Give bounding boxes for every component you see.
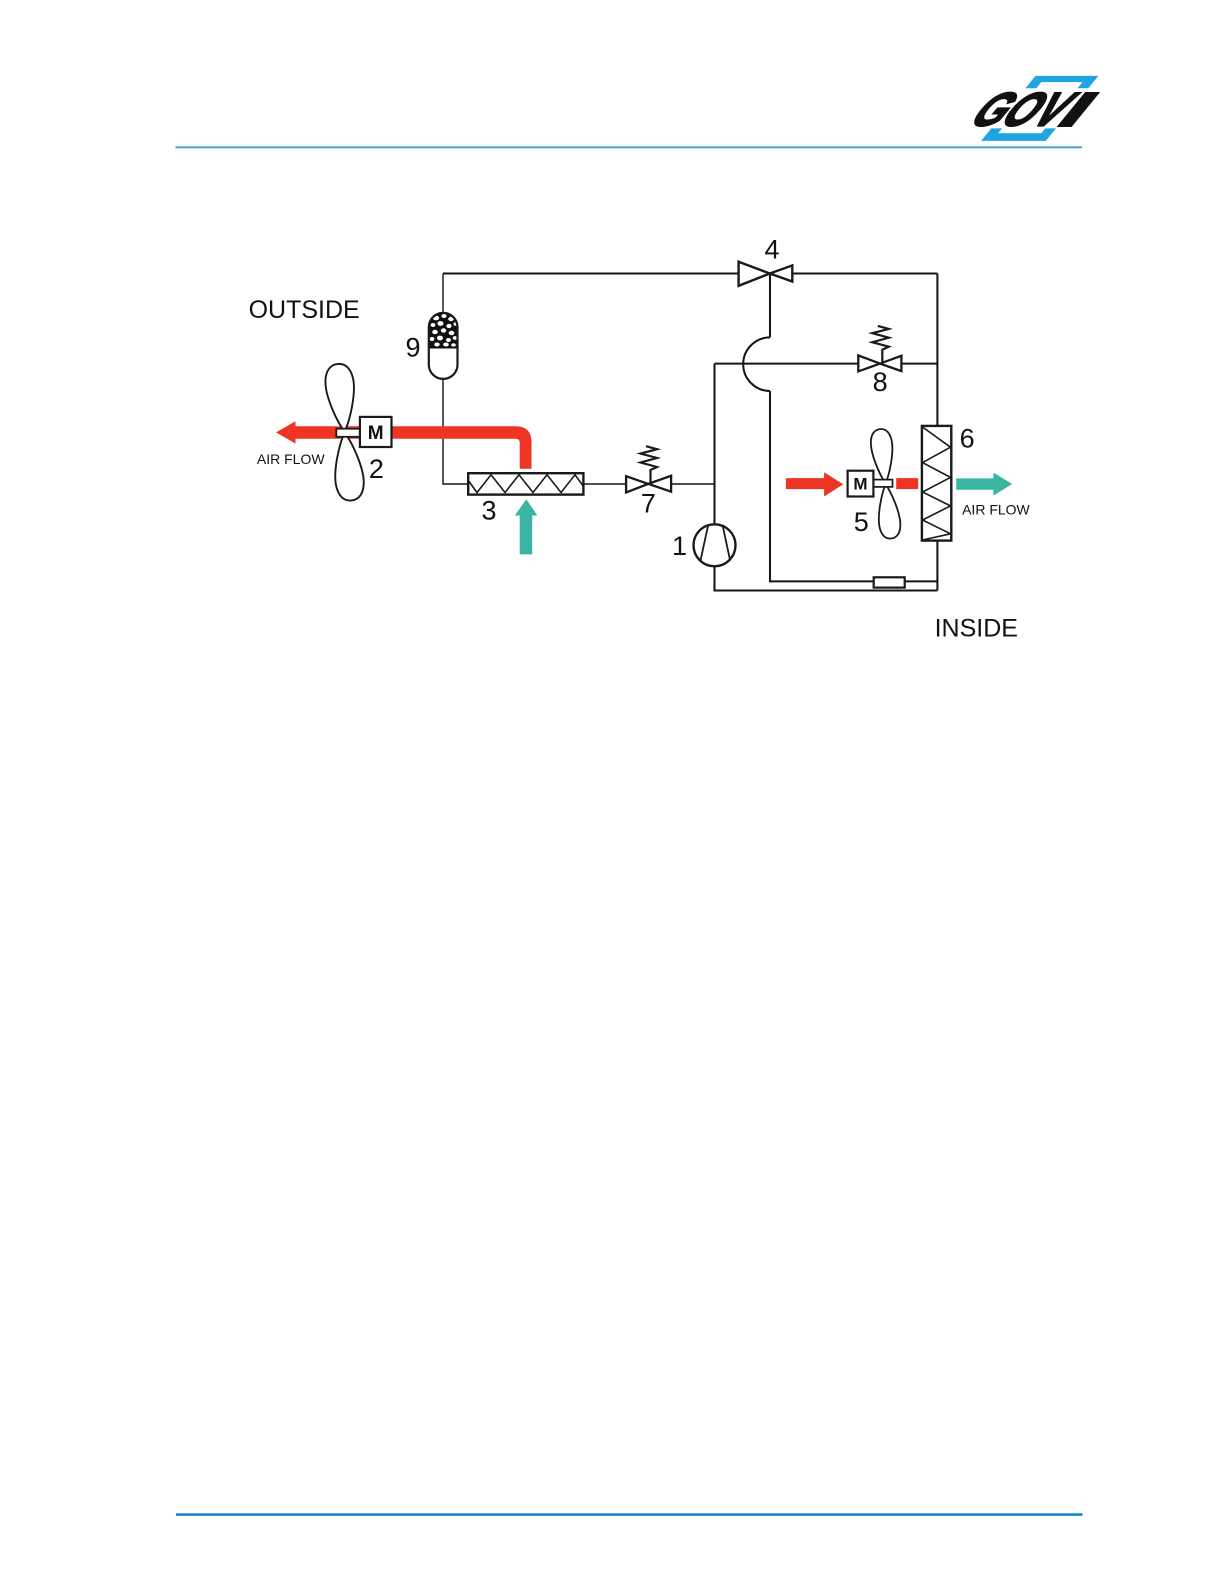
- motor box M 5: [848, 471, 874, 497]
- expansion valve 8: [858, 355, 901, 371]
- wire from valve4 down: [769, 274, 771, 338]
- svg-text:INSIDE: INSIDE: [935, 615, 1018, 643]
- svg-text:9: 9: [405, 333, 420, 363]
- svg-text:4: 4: [764, 234, 779, 264]
- svg-text:AIR FLOW: AIR FLOW: [962, 502, 1030, 518]
- svg-text:AIR FLOW: AIR FLOW: [257, 451, 325, 467]
- spring of valve 8: [872, 326, 889, 362]
- compressor 1: [694, 524, 736, 566]
- wire right vertical: [936, 274, 938, 591]
- receiver drier 9: [429, 313, 458, 379]
- svg-text:1: 1: [672, 531, 687, 561]
- wire top horizontal: [443, 272, 937, 274]
- heat exchanger 3: [468, 473, 583, 494]
- svg-text:8: 8: [873, 367, 888, 397]
- svg-text:2: 2: [369, 454, 384, 484]
- wire crossover lower vertical with inner bottom run: [770, 391, 937, 581]
- wire crossover arc: [743, 337, 770, 391]
- svg-text:M: M: [368, 423, 384, 444]
- red arrow into fan 5: [786, 472, 843, 496]
- muffler on bottom line: [874, 577, 905, 587]
- svg-text:OUTSIDE: OUTSIDE: [249, 296, 360, 324]
- wire left vertical with bottom run: [715, 364, 938, 591]
- fan 5 blades: [869, 428, 901, 540]
- svg-text:5: 5: [854, 507, 869, 537]
- svg-text:3: 3: [481, 496, 496, 526]
- motor box M 2: [360, 417, 392, 447]
- wire valve8 horizontal: [715, 363, 938, 365]
- wire HX3 to capsule: [443, 274, 468, 485]
- svg-text:M: M: [853, 475, 867, 494]
- wire valve7 run: [583, 483, 714, 485]
- fan 2 shaft: [336, 429, 360, 437]
- teal arrow up into HX3: [515, 499, 538, 554]
- header rule: [176, 146, 1083, 148]
- heat exchanger 6: [922, 426, 951, 541]
- teal arrow out of HX6: [956, 473, 1012, 496]
- reversing valve 4: [739, 262, 793, 286]
- small red segment: [896, 478, 918, 489]
- expansion valve 7: [626, 476, 671, 493]
- svg-text:6: 6: [960, 423, 975, 453]
- fan 2 blades: [324, 362, 366, 501]
- footer rule: [176, 1513, 1083, 1516]
- spring of valve 7: [641, 446, 658, 482]
- svg-text:7: 7: [641, 489, 656, 519]
- GOVI logo: [955, 76, 1114, 141]
- fan 5 shaft: [873, 480, 892, 487]
- red airflow band left with elbow: [276, 421, 532, 469]
